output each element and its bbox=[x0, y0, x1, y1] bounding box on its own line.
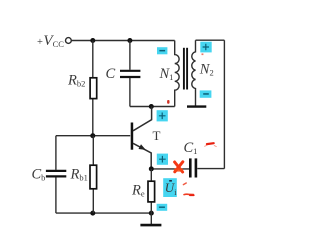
node emitter bbox=[149, 166, 154, 171]
wire tank bottom rail bbox=[130, 106, 175, 108]
transformer core bbox=[183, 48, 185, 90]
ground bottom bbox=[150, 213, 152, 225]
highlight Ui label box bbox=[163, 178, 177, 197]
transistor collector lead bbox=[133, 107, 152, 131]
highlight plus at collector node bbox=[157, 110, 168, 121]
wire Re branch bbox=[150, 169, 152, 181]
transistor emitter lead bbox=[133, 143, 151, 169]
wire bottom right horizontal bbox=[197, 168, 224, 170]
red polarity dot N2 bbox=[202, 53, 204, 55]
highlight plus at N2 top bbox=[200, 42, 211, 53]
highlight plus at emitter node bbox=[157, 154, 168, 165]
wire right branch bbox=[223, 40, 225, 168]
wire base rail bbox=[56, 135, 130, 137]
transformer secondary N2 bbox=[192, 40, 196, 105]
resistor Rb2 bbox=[90, 78, 97, 99]
resistor Rb1 bbox=[90, 165, 97, 189]
emitter arrow bbox=[139, 144, 146, 150]
wire N2 top to right branch bbox=[196, 39, 225, 41]
node bottom ground bbox=[149, 211, 154, 216]
ground under N2 bbox=[187, 105, 206, 107]
resistor Re bbox=[148, 181, 155, 202]
node bottom Rb1 bbox=[90, 211, 95, 216]
capacitor C1 bbox=[189, 158, 192, 177]
wire Cb branch bbox=[55, 136, 57, 170]
transformer primary N1 bbox=[175, 41, 179, 107]
capacitor Cb bbox=[46, 170, 66, 172]
node base rail bbox=[90, 133, 95, 138]
highlight minus at N2 bottom bbox=[200, 90, 212, 97]
node collector bbox=[149, 104, 154, 109]
red polarity dot N1 bbox=[167, 100, 169, 104]
capacitor C bbox=[120, 70, 140, 72]
wire Rb1 branch bbox=[92, 136, 94, 166]
red X mark bbox=[175, 162, 183, 172]
red scribble right of Ui lower bbox=[184, 193, 194, 195]
transistor T base bar bbox=[131, 123, 134, 150]
highlight minus below Re bbox=[157, 204, 168, 211]
wire C branch bbox=[129, 41, 131, 70]
red scribble right of Ui bbox=[183, 183, 186, 185]
svg-text:C: C bbox=[106, 66, 116, 82]
wire Rb2 branch bbox=[92, 41, 94, 78]
node top C bbox=[127, 38, 132, 43]
wire bottom rail bbox=[56, 212, 151, 214]
svg-text:T: T bbox=[153, 128, 161, 143]
wire top rail bbox=[72, 40, 175, 42]
wire emitter to C1 bbox=[151, 168, 189, 170]
highlight minus at N1 top bbox=[157, 47, 167, 54]
power terminal circle bbox=[66, 38, 72, 44]
red scribble near C1 bbox=[207, 142, 214, 145]
node top Rb2 bbox=[90, 38, 95, 43]
